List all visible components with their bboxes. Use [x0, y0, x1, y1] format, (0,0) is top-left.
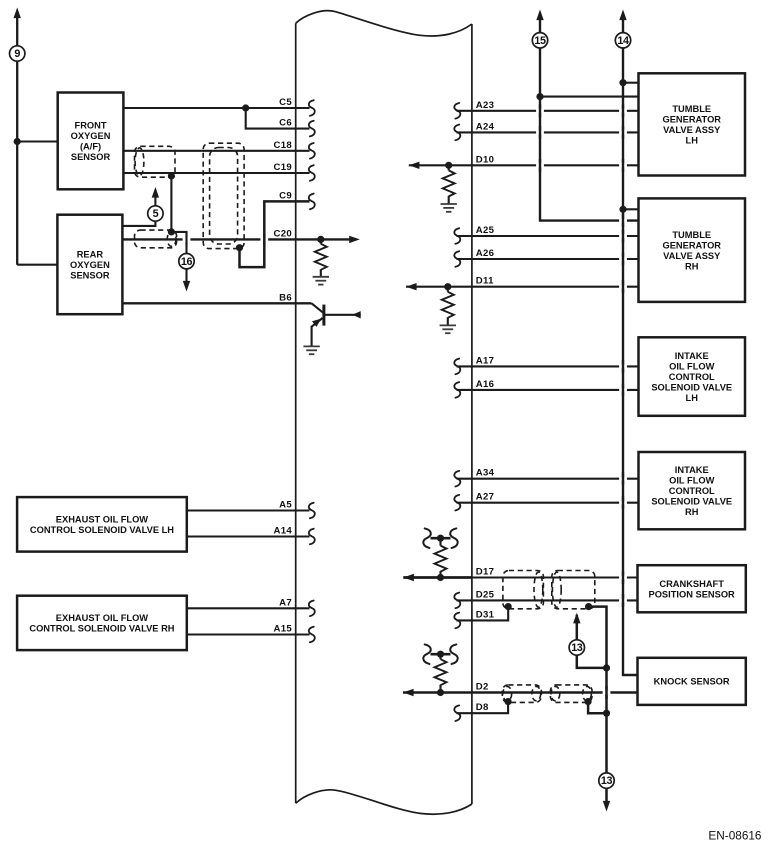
wire supply to resistor D17: [439, 538, 441, 545]
svg-text:OIL FLOW: OIL FLOW: [669, 476, 714, 486]
circled 5: [148, 206, 163, 221]
wire net-16 tail: [185, 268, 187, 281]
wire net-13 lower: [605, 713, 608, 773]
crossover gap net-14 at y577.5: [619, 571, 627, 584]
svg-text:A25: A25: [476, 225, 495, 236]
shield crank pair 1: [503, 571, 544, 609]
connector pin C18: [309, 143, 315, 159]
wire A23: [457, 110, 639, 112]
crankshaft position sensor box: [638, 565, 746, 612]
svg-text:CRANKSHAFT: CRANKSHAFT: [659, 579, 724, 589]
connector pin A24: [454, 125, 460, 141]
wire net-14: [623, 20, 638, 676]
connector pin D8: [454, 705, 460, 721]
circled 14: [615, 33, 630, 48]
crossover gap net-13 at D2: [603, 686, 611, 699]
crossover gap net-14 at y502.7: [619, 496, 627, 509]
wire D17 arrow segment: [403, 576, 472, 579]
crossover gap net-14 at y132.4: [619, 126, 627, 139]
junction net-9: [14, 138, 21, 145]
svg-text:GENERATOR: GENERATOR: [662, 240, 721, 250]
wire D2: [403, 691, 638, 694]
crossover gap net-14 at y389.9: [619, 384, 627, 397]
svg-text:GENERATOR: GENERATOR: [662, 115, 721, 125]
wire A25: [457, 235, 639, 237]
connector pin D31: [454, 613, 460, 629]
wire C20: [122, 238, 349, 240]
shield main harness: [203, 143, 244, 248]
junction D8 drain: [505, 698, 512, 705]
connector pin D25: [454, 593, 460, 609]
circled 9: [10, 46, 25, 61]
resistor C20 pull: [315, 244, 327, 270]
junction main shield drain: [236, 244, 243, 251]
connector pin A15: [309, 627, 315, 643]
connector pin A26: [454, 251, 460, 267]
wire C9 shield drain: [240, 201, 310, 267]
svg-text:A15: A15: [274, 624, 293, 635]
wire B6: [122, 302, 311, 304]
shield main harness inner wall: [210, 148, 238, 245]
crossover gap net-15 at y132.4: [536, 126, 544, 139]
wire net-13 tail: [605, 788, 608, 801]
svg-text:D17: D17: [476, 567, 495, 578]
front oxygen sensor box: [58, 93, 124, 190]
knock sensor box: [638, 658, 746, 705]
junction C20 resistor tap: [317, 236, 324, 243]
intake oil flow control solenoid valve LH box: [639, 337, 746, 416]
svg-text:A34: A34: [476, 468, 495, 479]
crossover gap net-15 at y165.3: [536, 159, 544, 172]
svg-text:C6: C6: [279, 118, 292, 129]
junction D17 resistor tap: [437, 574, 444, 581]
resistor D2 pull-up: [435, 659, 447, 685]
crossover gap net-15 at y110.8: [536, 104, 544, 117]
wire D11: [406, 286, 639, 288]
arrow left D2: [403, 689, 414, 696]
wire D11 to resistor: [447, 287, 449, 292]
svg-text:SOLENOID VALVE: SOLENOID VALVE: [651, 382, 732, 392]
svg-text:D10: D10: [476, 154, 495, 165]
ground D11 resistor: [440, 325, 456, 333]
wire C6 branch: [246, 108, 310, 129]
svg-text:14: 14: [617, 35, 629, 47]
arrow up net-5: [152, 187, 159, 198]
connector pin A5: [309, 503, 315, 519]
svg-text:KNOCK SENSOR: KNOCK SENSOR: [654, 677, 730, 687]
arrow right C20: [349, 236, 360, 243]
resistor D10 pull: [443, 170, 455, 196]
junction D17 supply: [437, 535, 444, 542]
junction net-14 tumble RH: [619, 206, 626, 213]
shield crank pair 2: [552, 571, 595, 609]
connector pin C5: [309, 100, 315, 116]
svg-text:A24: A24: [476, 121, 495, 132]
circled 13 lower: [599, 773, 614, 788]
svg-text:EXHAUST OIL FLOW: EXHAUST OIL FLOW: [56, 613, 149, 623]
connector pin C19: [309, 165, 315, 181]
connector pin A34: [454, 471, 460, 487]
crossover gap net-14 at y165.3: [619, 159, 627, 172]
wire net-14 to tumble LH: [623, 82, 639, 84]
svg-text:16: 16: [181, 256, 193, 268]
transistor Q1: [312, 303, 361, 346]
svg-text:TUMBLE: TUMBLE: [672, 104, 711, 114]
svg-text:EXHAUST OIL FLOW: EXHAUST OIL FLOW: [56, 515, 149, 525]
svg-text:A14: A14: [274, 526, 293, 537]
svg-text:B6: B6: [279, 292, 292, 303]
arrow down net-16: [183, 281, 190, 292]
wire supply to resistor D2: [439, 654, 441, 659]
connector pin C9: [309, 194, 315, 210]
svg-text:LH: LH: [686, 136, 699, 146]
svg-text:VALVE ASSY: VALVE ASSY: [663, 125, 721, 135]
svg-text:FRONT: FRONT: [75, 121, 107, 131]
wire D25: [457, 599, 638, 601]
exhaust oil flow control solenoid valve RH box: [17, 596, 187, 650]
svg-text:A27: A27: [476, 492, 495, 503]
connector pin A23: [454, 103, 460, 119]
svg-text:OXYGEN: OXYGEN: [70, 260, 110, 270]
crossover gap net-14 at y366.4: [619, 360, 627, 373]
crossover gap net-16 at rear sensor wire: [183, 233, 191, 246]
svg-text:9: 9: [14, 48, 20, 60]
svg-text:A7: A7: [279, 597, 292, 608]
wire net-9 to front oxygen sensor: [17, 140, 58, 142]
wire C19: [123, 172, 309, 174]
junction net-13 branch: [603, 664, 610, 671]
svg-text:13: 13: [571, 642, 583, 654]
svg-text:A23: A23: [476, 100, 495, 111]
wire D17 supply stub: [431, 537, 451, 540]
wire shield drain to net 16: [171, 232, 186, 254]
wire A17: [457, 365, 639, 367]
svg-text:C5: C5: [279, 97, 292, 108]
svg-text:EN-08616: EN-08616: [708, 829, 762, 843]
svg-text:A26: A26: [476, 248, 495, 259]
svg-text:LH: LH: [686, 393, 699, 403]
ground C20 resistor: [313, 277, 329, 285]
wire A15: [187, 633, 310, 635]
junction net-14 tumble LH: [619, 79, 626, 86]
crossover gap C9 drain at C20 wire: [260, 233, 268, 246]
arrow up net-9: [14, 8, 21, 19]
svg-text:A16: A16: [476, 379, 495, 390]
svg-text:C9: C9: [279, 190, 292, 201]
junction crank shield drain: [585, 603, 592, 610]
svg-text:15: 15: [534, 35, 546, 47]
circled 16: [179, 254, 194, 269]
junction C5/C6: [242, 104, 249, 111]
wire D31 to shield drain: [457, 607, 509, 621]
wire knock drain to net-13: [588, 702, 606, 714]
wire D10 to resistor: [448, 165, 450, 170]
crossover gap net-14 at y600.4: [619, 594, 627, 607]
wire rear sensor to net 5: [122, 221, 155, 226]
circled 13 upper: [569, 640, 584, 655]
wire A26: [457, 258, 639, 260]
junction shield drain at rear shield: [168, 228, 175, 235]
svg-text:REAR: REAR: [77, 249, 104, 259]
svg-text:D2: D2: [476, 682, 489, 693]
wire resistor to D17: [439, 571, 441, 577]
wire net-14 to tumble RH: [623, 208, 639, 210]
crossover gap net-14 at y220.6: [619, 214, 627, 227]
wire net-13 upper: [589, 607, 607, 714]
ECM harness band right edge: [471, 24, 473, 804]
connector D17 supply right: [450, 528, 457, 548]
junction D2 resistor tap: [437, 689, 444, 696]
ground D10 resistor: [441, 204, 457, 212]
crossover gap net-14 at y478.7: [619, 472, 627, 485]
svg-text:13: 13: [601, 775, 613, 787]
tumble generator valve assy LH box: [639, 73, 746, 175]
svg-text:D25: D25: [476, 589, 495, 600]
crossover gap net-14 at y259: [619, 253, 627, 266]
intake oil flow control solenoid valve RH box: [639, 452, 746, 529]
svg-text:CONTROL SOLENOID VALVE LH: CONTROL SOLENOID VALVE LH: [30, 525, 174, 535]
svg-text:D31: D31: [476, 609, 495, 620]
wire C18: [123, 150, 309, 152]
arrow up net-15: [536, 10, 543, 21]
svg-text:POSITION SENSOR: POSITION SENSOR: [649, 589, 736, 599]
svg-text:RH: RH: [685, 261, 699, 271]
junction D31 drain: [505, 603, 512, 610]
ground transistor emitter: [303, 346, 319, 354]
connector pin A17: [454, 359, 460, 375]
svg-text:D8: D8: [476, 702, 489, 713]
svg-text:C19: C19: [274, 162, 293, 173]
connector pin A25: [454, 228, 460, 244]
shield rear oxygen sensor: [135, 230, 177, 248]
svg-text:INTAKE: INTAKE: [675, 465, 709, 475]
junction knock shield drain: [585, 698, 592, 705]
svg-text:C18: C18: [274, 140, 293, 151]
svg-text:OXYGEN: OXYGEN: [71, 131, 111, 141]
wire D2 supply stub: [431, 653, 451, 656]
junction D2 supply: [437, 651, 444, 658]
svg-text:RH: RH: [685, 507, 699, 517]
wire A7: [187, 607, 310, 609]
wire net-15 to tumble LH: [540, 96, 639, 98]
svg-text:C20: C20: [274, 228, 293, 239]
arrow down net-13: [603, 801, 610, 812]
connector pin A16: [454, 382, 460, 398]
wire A14: [187, 535, 310, 537]
wire A27: [457, 502, 639, 504]
svg-text:SENSOR: SENSOR: [71, 152, 111, 162]
wire C20 to resistor: [320, 239, 322, 243]
arrow up net-13 branch: [573, 613, 580, 624]
wire net-13 branch arrow: [577, 615, 607, 668]
connector pin A27: [454, 495, 460, 511]
wire resistor to ground: [320, 269, 322, 276]
svg-text:OIL FLOW: OIL FLOW: [669, 361, 714, 371]
connector pin C6: [309, 121, 315, 137]
wire D17: [471, 576, 638, 578]
svg-text:A17: A17: [476, 355, 495, 366]
wire A24: [457, 131, 639, 133]
wire D11 resistor to ground: [447, 317, 449, 325]
crossover gap net-14 at y236: [619, 230, 627, 243]
svg-text:D11: D11: [476, 276, 494, 287]
connector D17 supply left: [423, 528, 430, 548]
wire D8: [457, 702, 509, 714]
svg-text:A5: A5: [279, 500, 292, 511]
ECM harness band left edge: [295, 23, 297, 803]
shield knock 1: [502, 685, 541, 703]
wire D10: [409, 164, 639, 166]
svg-text:CONTROL SOLENOID VALVE RH: CONTROL SOLENOID VALVE RH: [29, 624, 174, 634]
resistor D17 pull-up: [435, 546, 447, 572]
shield front oxygen sensor pair: [135, 146, 176, 177]
wire resistor to D2: [439, 685, 441, 693]
circled 15: [532, 33, 547, 48]
wire A5: [187, 509, 310, 511]
connector D2 supply left: [423, 644, 430, 664]
junction net-15 tumble LH: [536, 93, 543, 100]
wire C5: [123, 107, 309, 109]
junction shield drain at C19: [168, 172, 175, 179]
wire net-15: [540, 20, 639, 221]
junction net-13 knock drain: [603, 710, 610, 717]
ECM band torn bottom edge: [296, 790, 472, 814]
wire A16: [457, 389, 639, 391]
exhaust oil flow control solenoid valve LH box: [17, 497, 187, 551]
crossover gap net-14 at y110.8: [619, 104, 627, 117]
wire net-9 vertical: [16, 18, 18, 265]
wire A34: [457, 478, 639, 480]
wire shield drain front-to-rear: [170, 176, 172, 232]
svg-text:TUMBLE: TUMBLE: [672, 230, 711, 240]
ECM band torn top edge: [296, 11, 472, 36]
tumble generator valve assy RH box: [639, 198, 746, 302]
wire net-5 tail: [154, 198, 156, 207]
arrow left D11: [406, 283, 417, 290]
wire D10 resistor to ground: [448, 196, 450, 204]
crossover gap net-14 at y286.7: [619, 280, 627, 293]
connector pin A7: [309, 601, 315, 617]
connector D2 supply right: [450, 644, 457, 664]
svg-text:INTAKE: INTAKE: [675, 351, 709, 361]
resistor D11 pull: [442, 292, 454, 318]
svg-text:CONTROL: CONTROL: [669, 486, 715, 496]
arrow left D10: [409, 162, 420, 169]
svg-text:CONTROL: CONTROL: [669, 372, 715, 382]
svg-text:SOLENOID VALVE: SOLENOID VALVE: [651, 497, 732, 507]
connector pin A14: [309, 529, 315, 545]
wire net-9 to rear oxygen sensor: [17, 264, 58, 266]
rear oxygen sensor box: [57, 215, 122, 315]
svg-text:VALVE ASSY: VALVE ASSY: [663, 251, 721, 261]
shield knock 2: [550, 685, 592, 703]
junction D11 resistor tap: [444, 283, 451, 290]
svg-text:(A/F): (A/F): [80, 142, 101, 152]
arrow up net-14: [619, 10, 626, 21]
svg-text:SENSOR: SENSOR: [70, 270, 110, 280]
arrow left D17: [403, 574, 414, 581]
junction D10 resistor tap: [445, 162, 452, 169]
svg-text:5: 5: [153, 208, 159, 220]
